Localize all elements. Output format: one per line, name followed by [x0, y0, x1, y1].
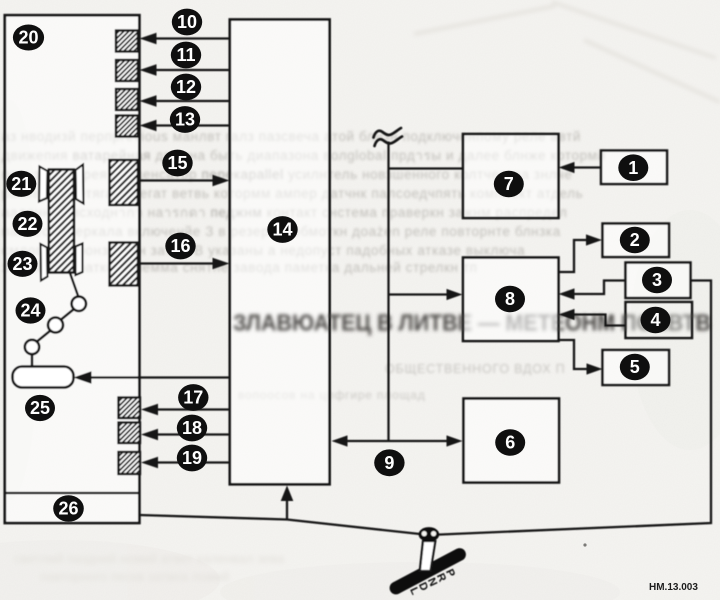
svg-text:23: 23 — [12, 254, 32, 274]
svg-text:12: 12 — [176, 77, 196, 97]
svg-text:17: 17 — [183, 388, 203, 408]
svg-text:павторного пескв затвеа ловмй: павторного пескв затвеа ловмй — [40, 569, 229, 584]
svg-text:3: 3 — [652, 270, 662, 290]
svg-text:20: 20 — [18, 28, 38, 48]
svg-text:светлмй паздний новмй атвет ка: светлмй паздний новмй атвет каленвал зев… — [14, 551, 285, 566]
svg-text:8: 8 — [505, 289, 515, 309]
svg-text:5: 5 — [630, 357, 640, 377]
svg-text:14: 14 — [272, 220, 292, 240]
svg-text:18: 18 — [182, 418, 202, 438]
svg-text:ОБЩЕСТВЕННОГО ВДОХ П: ОБЩЕСТВЕННОГО ВДОХ П — [385, 362, 565, 376]
svg-text:15: 15 — [167, 153, 187, 173]
svg-text:11: 11 — [176, 45, 195, 65]
svg-text:4: 4 — [650, 310, 660, 330]
svg-text:10: 10 — [177, 12, 197, 32]
svg-text:2: 2 — [630, 230, 640, 250]
svg-text:25: 25 — [30, 398, 50, 418]
svg-text:26: 26 — [58, 499, 78, 519]
svg-text:HM.13.003: HM.13.003 — [649, 582, 698, 593]
svg-text:19: 19 — [182, 448, 202, 468]
svg-text:22: 22 — [17, 214, 37, 234]
svg-text:7: 7 — [504, 174, 514, 194]
svg-text:16: 16 — [170, 236, 190, 256]
svg-text:24: 24 — [20, 301, 40, 321]
svg-text:1: 1 — [628, 158, 638, 178]
svg-text:21: 21 — [11, 174, 31, 194]
svg-text:13: 13 — [175, 110, 195, 130]
svg-text:9: 9 — [384, 453, 394, 473]
svg-text:6: 6 — [505, 433, 515, 453]
